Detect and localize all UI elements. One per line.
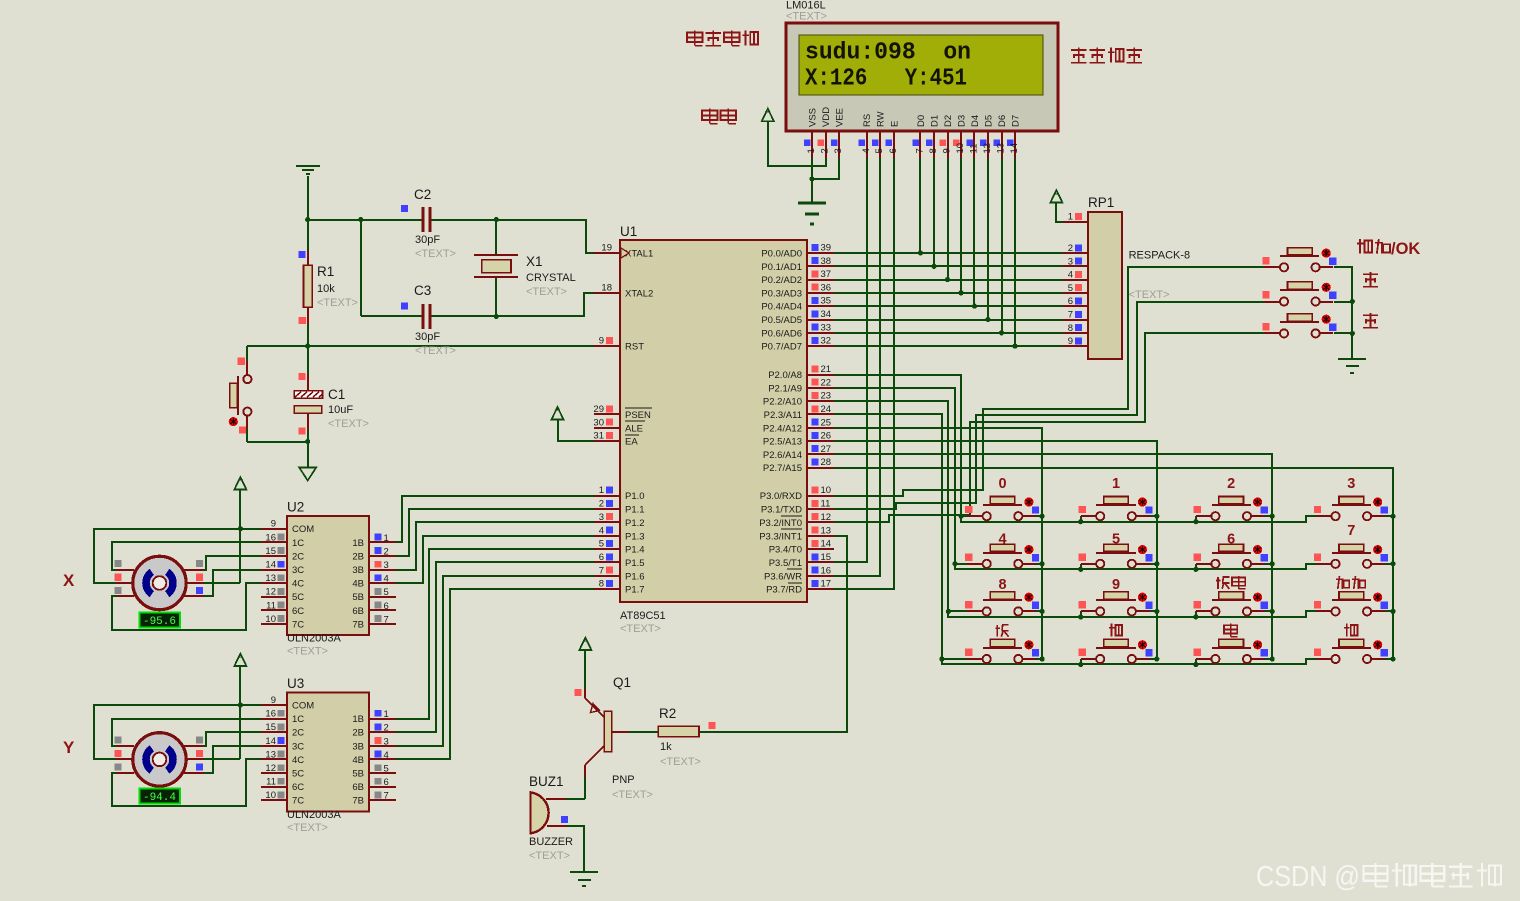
svg-text:P2.1/A9: P2.1/A9 <box>768 383 802 394</box>
svg-text:P1.0: P1.0 <box>625 491 645 502</box>
svg-text:X: X <box>63 571 75 590</box>
svg-text:5: 5 <box>384 764 389 775</box>
svg-text:P3.4/T0: P3.4/T0 <box>769 545 802 556</box>
svg-text:D2: D2 <box>943 115 954 127</box>
svg-text:8: 8 <box>998 577 1006 593</box>
svg-text:2: 2 <box>384 546 389 557</box>
svg-text:2C: 2C <box>292 551 304 562</box>
svg-text:U1: U1 <box>620 224 637 239</box>
svg-text:COM: COM <box>292 524 314 535</box>
svg-text:3C: 3C <box>292 741 304 752</box>
svg-text:P2.0/A8: P2.0/A8 <box>768 370 802 381</box>
svg-text:10: 10 <box>955 143 966 154</box>
svg-text:26: 26 <box>821 431 832 442</box>
svg-text:<TEXT>: <TEXT> <box>415 345 456 357</box>
svg-text:R2: R2 <box>659 706 676 721</box>
svg-text:P1.1: P1.1 <box>625 505 645 516</box>
svg-text:Y: Y <box>63 738 75 757</box>
svg-text:11: 11 <box>266 777 276 788</box>
svg-text:6C: 6C <box>292 606 304 617</box>
svg-text:D7: D7 <box>1011 115 1022 127</box>
svg-text:34: 34 <box>821 309 832 320</box>
svg-text:6C: 6C <box>292 782 304 793</box>
svg-text:2: 2 <box>820 148 831 153</box>
svg-text:5C: 5C <box>292 592 304 603</box>
svg-text:30pF: 30pF <box>415 331 440 343</box>
svg-text:32: 32 <box>821 336 832 347</box>
svg-text:9: 9 <box>942 148 953 153</box>
svg-text:Q1: Q1 <box>613 675 631 690</box>
svg-text:10uF: 10uF <box>328 404 353 416</box>
svg-text:C3: C3 <box>414 283 431 298</box>
svg-text:9: 9 <box>1068 336 1073 347</box>
svg-text:BUZZER: BUZZER <box>529 836 573 848</box>
svg-text:4B: 4B <box>352 579 364 590</box>
svg-text:P2.6/A14: P2.6/A14 <box>763 450 802 461</box>
svg-text:2: 2 <box>1068 243 1073 254</box>
svg-text:EA: EA <box>625 437 638 448</box>
svg-text:7: 7 <box>1347 523 1355 539</box>
svg-text:10: 10 <box>265 614 276 625</box>
svg-text:6: 6 <box>384 601 389 612</box>
svg-text:13: 13 <box>265 749 276 760</box>
svg-text:P0.6/AD6: P0.6/AD6 <box>761 328 802 339</box>
svg-text:<TEXT>: <TEXT> <box>526 286 567 298</box>
svg-text:7: 7 <box>599 565 604 576</box>
svg-text:13: 13 <box>821 525 832 536</box>
svg-text:CSDN @: CSDN @ <box>1256 861 1360 893</box>
svg-text:3: 3 <box>833 148 844 153</box>
svg-text:4C: 4C <box>292 579 304 590</box>
svg-text:10: 10 <box>265 790 276 801</box>
svg-text:E: E <box>889 121 900 127</box>
svg-text:35: 35 <box>821 296 832 307</box>
svg-text:-94.4: -94.4 <box>143 792 176 804</box>
svg-text:-95.6: -95.6 <box>143 616 176 628</box>
svg-text:RST: RST <box>625 342 644 353</box>
svg-text:7: 7 <box>384 791 389 802</box>
svg-text:15: 15 <box>265 722 276 733</box>
svg-text:1: 1 <box>1112 476 1120 492</box>
svg-text:13: 13 <box>265 573 276 584</box>
svg-text:8: 8 <box>928 148 939 153</box>
svg-text:<TEXT>: <TEXT> <box>660 756 701 768</box>
svg-text:31: 31 <box>593 431 604 442</box>
svg-text:22: 22 <box>821 377 832 388</box>
svg-text:7B: 7B <box>352 619 364 630</box>
svg-text:23: 23 <box>821 391 832 402</box>
svg-text:3: 3 <box>599 512 604 523</box>
svg-text:RS: RS <box>862 114 873 127</box>
svg-text:P0.7/AD7: P0.7/AD7 <box>761 342 802 353</box>
svg-text:5B: 5B <box>352 592 364 603</box>
svg-text:CRYSTAL: CRYSTAL <box>526 272 576 284</box>
svg-text:7: 7 <box>915 148 926 153</box>
svg-text:12: 12 <box>821 512 832 523</box>
svg-text:1C: 1C <box>292 714 304 725</box>
svg-text:3B: 3B <box>352 565 364 576</box>
svg-text:7B: 7B <box>352 796 364 807</box>
svg-text:D3: D3 <box>957 115 968 127</box>
svg-text:12: 12 <box>982 143 993 154</box>
svg-text:VSS: VSS <box>808 108 819 127</box>
svg-text:P2.5/A13: P2.5/A13 <box>763 437 802 448</box>
svg-text:PSEN: PSEN <box>625 410 651 421</box>
svg-text:9: 9 <box>271 519 276 530</box>
svg-text:3: 3 <box>1068 256 1073 267</box>
svg-text:16: 16 <box>265 532 276 543</box>
svg-text:5: 5 <box>1112 531 1120 547</box>
svg-text:5: 5 <box>599 539 604 550</box>
svg-text:17: 17 <box>821 579 832 590</box>
svg-text:D4: D4 <box>970 115 981 127</box>
svg-text:21: 21 <box>821 364 832 375</box>
svg-text:9: 9 <box>271 695 276 706</box>
svg-text:37: 37 <box>821 269 832 280</box>
svg-text:P1.5: P1.5 <box>625 558 645 569</box>
svg-text:30pF: 30pF <box>415 234 440 246</box>
svg-text:C1: C1 <box>328 387 345 402</box>
svg-text:P0.3/AD3: P0.3/AD3 <box>761 288 802 299</box>
svg-text:25: 25 <box>821 417 832 428</box>
svg-text:1: 1 <box>384 533 389 544</box>
svg-text:7C: 7C <box>292 619 304 630</box>
svg-text:15: 15 <box>821 552 832 563</box>
svg-text:P1.7: P1.7 <box>625 585 645 596</box>
svg-text:14: 14 <box>821 539 832 550</box>
svg-text:4: 4 <box>384 750 389 761</box>
svg-text:P0.1/AD1: P0.1/AD1 <box>761 262 802 273</box>
svg-text:/OK: /OK <box>1391 240 1420 258</box>
svg-text:6: 6 <box>1068 296 1073 307</box>
svg-text:D6: D6 <box>997 115 1008 127</box>
svg-text:8: 8 <box>599 579 604 590</box>
svg-text:1: 1 <box>384 709 389 720</box>
svg-text:6: 6 <box>384 777 389 788</box>
svg-text:<TEXT>: <TEXT> <box>328 418 369 430</box>
svg-text:U2: U2 <box>287 500 304 515</box>
svg-text:2: 2 <box>384 723 389 734</box>
svg-text:0: 0 <box>998 476 1006 492</box>
svg-text:1k: 1k <box>660 741 672 753</box>
svg-text:2B: 2B <box>352 551 364 562</box>
svg-text:1B: 1B <box>352 538 364 549</box>
svg-text:D0: D0 <box>916 115 927 127</box>
svg-text:VEE: VEE <box>835 108 846 127</box>
svg-text:P2.2/A10: P2.2/A10 <box>763 397 802 408</box>
svg-text:4C: 4C <box>292 755 304 766</box>
svg-text:<TEXT>: <TEXT> <box>529 850 570 862</box>
svg-text:6: 6 <box>1227 531 1235 547</box>
svg-text:4: 4 <box>861 148 872 153</box>
svg-text:<TEXT>: <TEXT> <box>287 646 328 658</box>
svg-text:5: 5 <box>384 587 389 598</box>
svg-text:2C: 2C <box>292 728 304 739</box>
svg-text:39: 39 <box>821 243 832 254</box>
svg-text:P3.2/INT0: P3.2/INT0 <box>759 518 802 529</box>
svg-text:11: 11 <box>969 144 980 154</box>
svg-text:19: 19 <box>601 243 612 254</box>
svg-text:3: 3 <box>384 736 389 747</box>
svg-text:2B: 2B <box>352 728 364 739</box>
svg-text:11: 11 <box>266 600 276 611</box>
svg-text:2: 2 <box>599 499 604 510</box>
svg-text:P3.6/WR: P3.6/WR <box>764 571 802 582</box>
svg-text:16: 16 <box>821 565 832 576</box>
svg-text:D1: D1 <box>930 115 941 127</box>
svg-text:3: 3 <box>384 560 389 571</box>
svg-text:R1: R1 <box>317 264 334 279</box>
svg-text:COM: COM <box>292 701 314 712</box>
svg-text:<TEXT>: <TEXT> <box>287 822 328 834</box>
svg-text:X:126 Y:451: X:126 Y:451 <box>805 66 967 93</box>
svg-text:U3: U3 <box>287 676 304 691</box>
svg-text:3B: 3B <box>352 741 364 752</box>
svg-text:XTAL1: XTAL1 <box>625 249 653 260</box>
svg-text:RW: RW <box>876 111 887 127</box>
svg-text:4: 4 <box>1068 270 1073 281</box>
svg-text:PNP: PNP <box>612 774 635 786</box>
svg-text:1: 1 <box>599 485 604 496</box>
svg-text:13: 13 <box>996 143 1007 154</box>
svg-text:P1.3: P1.3 <box>625 531 645 542</box>
svg-text:P0.2/AD2: P0.2/AD2 <box>761 275 802 286</box>
svg-text:4: 4 <box>998 531 1006 547</box>
svg-text:P3.5/T1: P3.5/T1 <box>769 558 802 569</box>
svg-text:28: 28 <box>821 457 832 468</box>
svg-text:P3.1/TXD: P3.1/TXD <box>761 505 802 516</box>
svg-text:C2: C2 <box>414 187 431 202</box>
svg-text:5: 5 <box>1068 283 1073 294</box>
svg-text:X1: X1 <box>526 254 543 269</box>
svg-text:14: 14 <box>265 736 276 747</box>
svg-text:P3.7/RD: P3.7/RD <box>766 585 802 596</box>
svg-text:14: 14 <box>265 560 276 571</box>
svg-text:6B: 6B <box>352 606 364 617</box>
svg-text:ALE: ALE <box>625 423 643 434</box>
svg-text:RESPACK-8: RESPACK-8 <box>1129 250 1191 262</box>
svg-text:5C: 5C <box>292 769 304 780</box>
svg-text:30: 30 <box>593 417 604 428</box>
svg-text:<TEXT>: <TEXT> <box>612 789 653 801</box>
svg-text:6: 6 <box>599 552 604 563</box>
svg-text:10k: 10k <box>317 283 335 295</box>
svg-text:BUZ1: BUZ1 <box>529 774 564 789</box>
svg-text:1B: 1B <box>352 714 364 725</box>
svg-text:1C: 1C <box>292 538 304 549</box>
svg-text:sudu:098 on: sudu:098 on <box>805 40 971 67</box>
svg-text:16: 16 <box>265 709 276 720</box>
svg-text:12: 12 <box>265 763 276 774</box>
svg-text:XTAL2: XTAL2 <box>625 288 653 299</box>
svg-text:9: 9 <box>599 336 604 347</box>
svg-text:RP1: RP1 <box>1088 195 1114 210</box>
svg-text:1: 1 <box>1068 212 1073 223</box>
svg-text:4: 4 <box>599 525 604 536</box>
svg-text:P1.6: P1.6 <box>625 571 645 582</box>
svg-text:8: 8 <box>1068 323 1073 334</box>
svg-text:36: 36 <box>821 282 832 293</box>
svg-text:P2.4/A12: P2.4/A12 <box>763 423 802 434</box>
svg-text:12: 12 <box>265 587 276 598</box>
svg-text:3: 3 <box>1347 476 1355 492</box>
svg-text:11: 11 <box>821 499 831 510</box>
svg-text:P3.0/RXD: P3.0/RXD <box>760 491 802 502</box>
svg-text:AT89C51: AT89C51 <box>620 610 666 622</box>
svg-text:7: 7 <box>384 614 389 625</box>
svg-text:38: 38 <box>821 256 832 267</box>
svg-text:7: 7 <box>1068 310 1073 321</box>
svg-text:P3.3/INT1: P3.3/INT1 <box>759 531 802 542</box>
svg-text:ULN2003A: ULN2003A <box>287 633 341 645</box>
svg-text:4B: 4B <box>352 755 364 766</box>
svg-text:3C: 3C <box>292 565 304 576</box>
svg-text:<TEXT>: <TEXT> <box>620 623 661 635</box>
svg-text:5B: 5B <box>352 769 364 780</box>
svg-text:6B: 6B <box>352 782 364 793</box>
svg-text:P1.4: P1.4 <box>625 545 645 556</box>
svg-text:<TEXT>: <TEXT> <box>415 248 456 260</box>
svg-text:P2.3/A11: P2.3/A11 <box>764 410 802 421</box>
svg-text:P0.0/AD0: P0.0/AD0 <box>761 249 802 260</box>
svg-text:5: 5 <box>874 148 885 153</box>
svg-text:ULN2003A: ULN2003A <box>287 809 341 821</box>
svg-text:33: 33 <box>821 322 832 333</box>
svg-text:<TEXT>: <TEXT> <box>1129 289 1170 301</box>
svg-text:P0.4/AD4: P0.4/AD4 <box>761 302 802 313</box>
svg-text:4: 4 <box>384 574 389 585</box>
svg-text:18: 18 <box>601 282 612 293</box>
svg-text:P2.7/A15: P2.7/A15 <box>763 463 802 474</box>
svg-text:<TEXT>: <TEXT> <box>786 11 827 23</box>
svg-text:VDD: VDD <box>821 107 832 127</box>
svg-text:27: 27 <box>821 444 832 455</box>
svg-text:29: 29 <box>593 404 604 415</box>
svg-text:P0.5/AD5: P0.5/AD5 <box>761 315 802 326</box>
svg-text:10: 10 <box>821 485 832 496</box>
svg-text:D5: D5 <box>984 115 995 127</box>
svg-text:7C: 7C <box>292 796 304 807</box>
svg-text:6: 6 <box>888 148 899 153</box>
svg-text:<TEXT>: <TEXT> <box>317 297 358 309</box>
svg-text:1: 1 <box>806 148 817 153</box>
svg-text:24: 24 <box>821 404 832 415</box>
svg-text:2: 2 <box>1227 476 1235 492</box>
svg-text:P1.2: P1.2 <box>625 518 645 529</box>
svg-text:9: 9 <box>1112 577 1120 593</box>
svg-text:14: 14 <box>1009 143 1020 154</box>
svg-text:15: 15 <box>265 546 276 557</box>
